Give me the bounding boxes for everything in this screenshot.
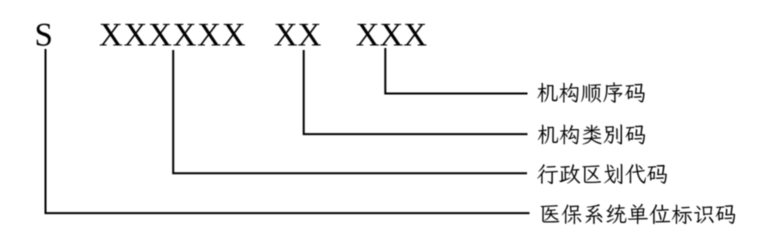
leader line 3 bbox=[173, 50, 527, 173]
leader line 2 bbox=[304, 50, 528, 134]
code segment XX (institution category) bbox=[274, 24, 320, 46]
code segment XXX (institution sequence) bbox=[356, 24, 426, 46]
label jigou leibie ma (institution category code) bbox=[538, 124, 645, 144]
label xingzheng quhua daima (admin division code) bbox=[537, 164, 667, 184]
label yibao xitong danwei biaoshi ma (MI system unit id code) bbox=[541, 204, 736, 224]
leader line 1 bbox=[385, 48, 527, 94]
leader line 4 bbox=[46, 49, 530, 213]
code segment S (system identifier) bbox=[37, 24, 51, 46]
code segment XXXXXX (admin division) bbox=[100, 24, 245, 46]
label jigou shunxu ma (institution sequence code) bbox=[537, 82, 644, 103]
